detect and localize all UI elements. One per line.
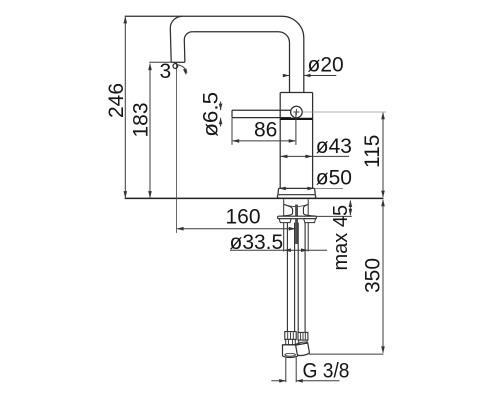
dimension ø20 (286, 75, 337, 77)
outlet bottom edge (171, 61, 185, 63)
dimension 160 (177, 228, 295, 230)
bracket left wing (279, 219, 291, 223)
dimension ø33.5 (230, 249, 327, 251)
spout outer outline (125, 16, 304, 92)
body right side (312, 93, 314, 189)
svg-text:ø50: ø50 (316, 167, 352, 190)
left connector collar (285, 332, 296, 340)
spout inner left corner and outlet right edge (184, 32, 192, 63)
svg-text:ø33.5: ø33.5 (230, 231, 284, 254)
body top (280, 92, 312, 94)
extension lines G3/8 (286, 357, 296, 382)
bracket right wing (304, 219, 316, 223)
ball joint (291, 106, 303, 118)
extension line 183 level (149, 61, 171, 63)
dimension 183 line (149, 64, 151, 198)
dimension ø50 arrows and tail (315, 187, 343, 189)
svg-text:max 45: max 45 (330, 205, 352, 271)
threaded rod (295, 205, 298, 245)
extension line arm tip (231, 118, 233, 145)
dimension G3/8 line (271, 380, 339, 382)
angle arc 3 degrees (177, 65, 188, 73)
dimension 246 line (124, 17, 126, 198)
dimension max45 (349, 201, 351, 216)
shank stubs below counter (284, 199, 309, 251)
spout outer left corner and outlet left edge (170, 16, 182, 62)
extension line right nut bottom (309, 353, 384, 355)
dimension ø43 (280, 155, 349, 157)
svg-text:115: 115 (361, 135, 384, 168)
right collar ribs (301, 333, 306, 340)
right hose (298, 223, 305, 333)
side arm end cap (231, 110, 233, 117)
dimension arrows ø6.5 (220, 102, 222, 127)
spout inner outline (192, 32, 289, 93)
side arm bottom (232, 117, 291, 119)
side arm top (232, 109, 291, 111)
svg-text:183: 183 (130, 102, 153, 137)
hourglass top curve (285, 205, 308, 207)
joint thick line (280, 118, 312, 120)
extension line spout axis right (302, 111, 386, 113)
dimension 115 (382, 113, 384, 197)
body left side (279, 93, 281, 189)
extension line ball center (295, 113, 297, 145)
hourglass mount left (280, 204, 293, 216)
left neck ribs (288, 340, 292, 345)
right connector neck (299, 340, 307, 344)
svg-text:G 3/8: G 3/8 (303, 360, 350, 383)
svg-text:86: 86 (254, 118, 277, 141)
base plate lower band (277, 195, 315, 199)
dimension 350 (382, 200, 384, 353)
svg-text:350: 350 (362, 258, 385, 293)
right connector collar (298, 332, 308, 340)
outlet axis extension line (176, 63, 178, 233)
right nut (295, 341, 309, 356)
ball cross (293, 109, 299, 115)
left nut (283, 345, 298, 358)
base plate sides (278, 188, 315, 194)
counter line (125, 197, 384, 199)
left nut inner bottom ellipse (285, 353, 296, 356)
svg-text:ø6.5: ø6.5 (199, 92, 222, 137)
hourglass mount right (303, 204, 316, 216)
extension line bracket right (316, 215, 351, 217)
svg-text:160: 160 (226, 205, 261, 228)
svg-text:3°: 3° (160, 60, 180, 83)
mounting bracket bar (278, 216, 317, 219)
svg-text:ø20: ø20 (308, 54, 344, 77)
svg-text:246: 246 (105, 83, 128, 118)
left hose (287, 223, 294, 332)
dimension 86 (233, 140, 295, 142)
svg-text:ø43: ø43 (316, 135, 352, 158)
left collar ribs (288, 332, 294, 339)
left connector neck (286, 339, 296, 344)
left nut top edge (283, 344, 298, 346)
base plate top (also dim line of ø50) (279, 187, 315, 189)
